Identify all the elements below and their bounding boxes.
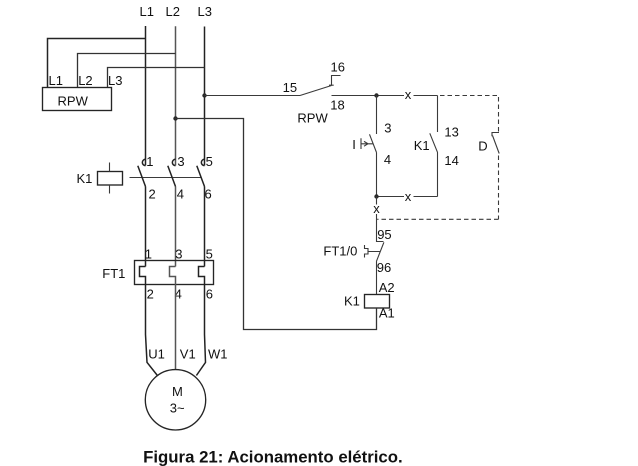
RPW changeover contact 15-16-18 bbox=[300, 76, 341, 96]
svg-text:6: 6 bbox=[206, 287, 213, 302]
node junction dot bottom rail bbox=[374, 194, 378, 198]
svg-text:RPW: RPW bbox=[297, 111, 328, 126]
wire 96 to coil A2 bbox=[376, 261, 378, 294]
svg-text:1: 1 bbox=[145, 247, 152, 262]
wire bottom seal-in rail (x break) bbox=[377, 196, 438, 198]
FT1 thermal element pole 2 bbox=[170, 267, 176, 371]
FT1 thermal element pole 1 bbox=[140, 267, 158, 377]
node junction dot top rail bbox=[374, 93, 378, 97]
contactor contact K1 pole 1-2 bbox=[138, 159, 146, 186]
svg-text:A2: A2 bbox=[379, 280, 395, 295]
svg-text:U1: U1 bbox=[148, 347, 165, 362]
svg-text:FT1: FT1 bbox=[102, 266, 125, 281]
wire L1 phase vertical bbox=[145, 26, 147, 166]
wire L3 below contact bbox=[204, 187, 206, 267]
wire K1 mechanical linkage bbox=[130, 177, 202, 179]
svg-text:x: x bbox=[405, 189, 412, 204]
svg-text:K1: K1 bbox=[77, 171, 93, 186]
svg-text:D: D bbox=[478, 139, 487, 154]
wire L1 below contact bbox=[145, 187, 147, 267]
wire down to FT1/0 bbox=[377, 197, 384, 242]
svg-text:K1: K1 bbox=[344, 293, 360, 308]
overload trip contact FT1/0 95-96 bbox=[368, 242, 384, 261]
FT1 thermal element pole 3 bbox=[196, 267, 205, 376]
svg-text:L3: L3 bbox=[198, 4, 212, 19]
svg-text:L2: L2 bbox=[78, 73, 92, 88]
svg-text:4: 4 bbox=[384, 152, 391, 167]
svg-text:96: 96 bbox=[377, 260, 391, 275]
svg-text:L2: L2 bbox=[166, 4, 180, 19]
wire L2 phase vertical bbox=[175, 26, 177, 165]
svg-text:L3: L3 bbox=[108, 73, 122, 88]
contactor K1 coil symbol (power side) bbox=[98, 172, 123, 186]
svg-text:4: 4 bbox=[177, 187, 184, 202]
wire L1 branch to RPW bbox=[48, 39, 146, 88]
wire control rail 18 to K1 branch (x break) bbox=[332, 95, 438, 97]
node junction dot on L3 (control tap) bbox=[202, 93, 206, 97]
svg-text:16: 16 bbox=[331, 60, 345, 75]
wire L2 below contact bbox=[175, 187, 177, 267]
svg-text:M: M bbox=[172, 384, 183, 399]
svg-text:3: 3 bbox=[384, 120, 391, 135]
svg-text:18: 18 bbox=[330, 98, 344, 113]
svg-text:5: 5 bbox=[206, 154, 213, 169]
svg-text:14: 14 bbox=[444, 153, 458, 168]
svg-text:L1: L1 bbox=[49, 73, 63, 88]
svg-text:3~: 3~ bbox=[170, 401, 185, 416]
contactor contact K1 pole 5-6 bbox=[197, 159, 205, 186]
svg-text:15: 15 bbox=[283, 80, 297, 95]
svg-text:FT1/0: FT1/0 bbox=[323, 244, 357, 259]
remote contact D bbox=[492, 133, 499, 154]
wire L3 phase vertical bbox=[204, 27, 206, 166]
wire L3 branch to RPW bbox=[108, 68, 205, 88]
svg-text:K1: K1 bbox=[414, 138, 430, 153]
wire L2 branch to RPW bbox=[78, 54, 176, 88]
svg-text:2: 2 bbox=[149, 187, 156, 202]
svg-text:L1: L1 bbox=[140, 4, 154, 19]
svg-text:x: x bbox=[405, 87, 412, 102]
svg-text:95: 95 bbox=[377, 227, 391, 242]
FT1/0 trip actuator symbol bbox=[365, 245, 369, 258]
motor M 3~ bbox=[145, 370, 205, 430]
wire control rail from L3 to RPW contact bbox=[205, 95, 301, 97]
svg-text:RPW: RPW bbox=[58, 93, 89, 108]
svg-text:3: 3 bbox=[177, 154, 184, 169]
relay RPW box bbox=[43, 88, 112, 111]
wire coil return to L2 bbox=[176, 119, 377, 330]
svg-text:3: 3 bbox=[175, 247, 182, 262]
svg-text:5: 5 bbox=[206, 247, 213, 262]
node junction dot on L2 (control return tap) bbox=[173, 116, 177, 120]
pushbutton I actuator bbox=[361, 138, 373, 149]
svg-text:1: 1 bbox=[146, 154, 153, 169]
svg-text:Figura 21: Acionamento elétric: Figura 21: Acionamento elétrico. bbox=[143, 447, 403, 466]
contactor contact K1 pole 3-4 bbox=[168, 159, 176, 186]
contactor coil K1 A2-A1 bbox=[365, 295, 390, 309]
svg-text:2: 2 bbox=[147, 287, 154, 302]
svg-text:6: 6 bbox=[205, 187, 212, 202]
svg-text:V1: V1 bbox=[180, 347, 196, 362]
svg-text:W1: W1 bbox=[208, 347, 228, 362]
svg-text:13: 13 bbox=[444, 124, 458, 139]
remote contact D dashed enclosure bbox=[377, 96, 498, 220]
pushbutton I contact 3-4 bbox=[370, 96, 377, 197]
svg-text:A1: A1 bbox=[379, 306, 395, 321]
auxiliary contact K1 13-14 bbox=[430, 96, 438, 197]
overload relay FT1 box bbox=[135, 261, 214, 285]
svg-text:I: I bbox=[352, 137, 356, 152]
